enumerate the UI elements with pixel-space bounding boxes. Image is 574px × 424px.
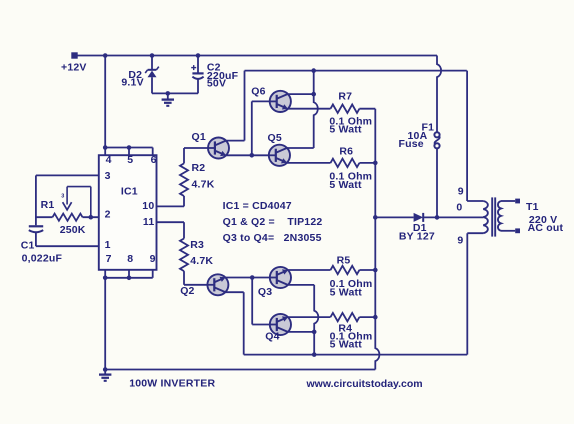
svg-text:IC1 = CD4047: IC1 = CD4047 <box>223 200 292 212</box>
zener diode D2 <box>145 56 159 94</box>
svg-text:Q6: Q6 <box>251 85 265 97</box>
wire Q2 collector riser to bottom collector net <box>226 292 244 354</box>
wire transformer top lead <box>467 71 483 201</box>
junction bus / D1 line <box>373 215 378 220</box>
junction Q6 collector / riser <box>311 92 316 97</box>
svg-text:IC1: IC1 <box>121 186 138 198</box>
wire Q1 emitter to Q5 base <box>226 154 269 156</box>
svg-text:Q5: Q5 <box>268 132 282 144</box>
wire +12V feed down to fuse (hops over collector line) <box>437 56 441 133</box>
resistor R3 (4.7K, vertical) <box>180 239 188 285</box>
capacitor C1 <box>29 226 43 246</box>
junction bus / R5 <box>373 268 378 273</box>
svg-text:0,022uF: 0,022uF <box>22 253 63 265</box>
label F1 10A Fuse <box>399 122 435 150</box>
IC1 CD4047 box <box>99 155 157 270</box>
transformer T1 core <box>492 197 495 236</box>
svg-text:Q1 & Q2 = TIP122: Q1 & Q2 = TIP122 <box>223 216 323 228</box>
wire top collector net (to transformer top) <box>245 70 467 72</box>
svg-text:10: 10 <box>142 200 154 212</box>
wire emitter-resistor bus (hops over bottom collector net) <box>375 109 379 370</box>
svg-text:100W INVERTER: 100W INVERTER <box>129 377 215 389</box>
label D2 9.1V <box>121 69 143 88</box>
junction ground rail / IC riser / ground symbol <box>103 367 108 372</box>
wire secondary top lead <box>501 200 515 202</box>
transistor Q5 (2N3055) <box>269 145 290 166</box>
svg-text:50V: 50V <box>207 78 226 90</box>
ground (bottom) <box>99 370 111 381</box>
wire Q2 emitter to Q3 base <box>225 277 269 279</box>
fuse F1 symbol <box>434 132 439 148</box>
svg-text:9.1V: 9.1V <box>121 77 143 89</box>
junction top collector net / Q5-Q6 riser <box>311 68 316 73</box>
junction on +12V rail at C2 <box>196 53 201 58</box>
wire +12V rail <box>75 55 438 57</box>
junction Q4 collector / riser <box>312 330 317 335</box>
node AC out bottom terminal (square) <box>515 228 520 233</box>
node AC out top terminal (square) <box>515 199 520 204</box>
svg-text:Q3: Q3 <box>258 286 272 298</box>
R1 wiper arrow and link to pin2 <box>61 187 91 218</box>
wire pin10 to R2 bottom <box>157 196 185 206</box>
svg-text:R3: R3 <box>190 239 204 251</box>
svg-text:9: 9 <box>150 253 156 265</box>
transformer T1 primary winding <box>483 201 488 233</box>
resistor R7 (0.1 Ohm) line from Q6 emitter <box>288 105 375 113</box>
junction R1 wiper / pin2 wire <box>89 215 94 220</box>
junction on +12V rail at D2 <box>150 53 155 58</box>
junction at ground stub <box>166 91 171 96</box>
svg-text:Fuse: Fuse <box>399 138 424 150</box>
svg-text:R6: R6 <box>339 146 353 158</box>
svg-text:5 Watt: 5 Watt <box>329 179 362 191</box>
svg-text:11: 11 <box>143 216 155 228</box>
wire riser to Q6 base <box>252 101 270 155</box>
svg-text:3: 3 <box>61 194 64 200</box>
svg-text:R2: R2 <box>192 162 206 174</box>
resistor R4 (0.1 Ohm) line from Q4 emitter <box>288 313 375 321</box>
transistor Q6 (2N3055) <box>270 91 291 112</box>
resistor R6 (0.1 Ohm) line from Q5 emitter <box>287 159 375 167</box>
wire D2/C2 bottom link to ground <box>152 92 198 94</box>
label C2 220uF 50V <box>207 62 239 90</box>
diode D1 (BY127) on center-tap line <box>375 213 483 222</box>
wire pin3 to C1 top / R1 left node <box>36 175 99 225</box>
svg-text:Q4: Q4 <box>265 331 279 343</box>
svg-text:Q1: Q1 <box>192 131 206 143</box>
svg-text:Q2: Q2 <box>180 285 194 297</box>
svg-text:BY 127: BY 127 <box>399 231 435 243</box>
wire +12V riser to IC pins 4,5,6 <box>105 56 153 156</box>
svg-text:7: 7 <box>106 253 112 265</box>
svg-text:C1: C1 <box>21 239 35 251</box>
svg-text:0: 0 <box>456 202 462 214</box>
svg-text:9: 9 <box>458 186 464 198</box>
svg-text:Q3 to Q4= 2N3055: Q3 to Q4= 2N3055 <box>223 232 322 244</box>
svg-text:R7: R7 <box>338 91 352 103</box>
transistor Q2 (TIP122, flipped) <box>207 274 228 295</box>
ground (top, below D2/C2) <box>162 93 174 105</box>
svg-text:6: 6 <box>151 154 157 166</box>
wire C1 bottom to pin1 <box>36 245 99 247</box>
wire transformer bottom lead <box>467 233 483 354</box>
junction at pin8 tie <box>127 276 132 281</box>
junction bus / R6 <box>373 161 378 166</box>
wire Q4 collector to riser <box>289 331 315 333</box>
node +12V terminal (filled square) <box>71 52 77 58</box>
svg-text:5: 5 <box>127 154 133 166</box>
wire R3 bottom to Q2 base <box>184 284 207 286</box>
svg-text:5 Watt: 5 Watt <box>330 339 363 351</box>
junction riser / bottom collector net <box>312 352 317 357</box>
svg-text:T1: T1 <box>526 201 539 213</box>
junction Q4 base riser on Q2 emitter line <box>250 275 255 280</box>
svg-text:5 Watt: 5 Watt <box>329 124 362 136</box>
wire secondary bottom lead <box>501 230 515 232</box>
transistor Q3 (2N3055, flipped) <box>270 267 291 288</box>
wire Q1 collector riser to top collector net <box>227 71 245 141</box>
svg-text:AC out: AC out <box>528 222 564 234</box>
junction on +12V rail at IC riser <box>103 53 108 58</box>
wire ground rail <box>105 369 376 371</box>
wire fuse to center-tap line <box>436 148 438 217</box>
svg-text:3: 3 <box>105 170 111 182</box>
junction at pin5 tie <box>127 145 132 150</box>
svg-text:250K: 250K <box>60 224 86 236</box>
svg-text:+12V: +12V <box>61 62 87 74</box>
wire Q6 collector to riser <box>289 93 314 95</box>
svg-text:R1: R1 <box>41 199 55 211</box>
svg-text:4.7K: 4.7K <box>192 178 215 190</box>
wire R2 top to Q1 base <box>184 147 208 149</box>
resistor R2 (4.7K, vertical) <box>180 148 188 196</box>
svg-text:www.circuitstoday.com: www.circuitstoday.com <box>306 378 423 390</box>
capacitor C2 (polarized) <box>191 56 203 94</box>
transistor Q4 (2N3055, flipped) <box>270 314 291 335</box>
wire Q5 collector riser (hops over R7 line) <box>287 147 314 149</box>
junction at pin7 tie <box>103 276 108 281</box>
label C1 0,022uF <box>21 239 63 264</box>
junction at pin4 tie <box>103 145 108 150</box>
svg-text:R5: R5 <box>337 254 351 266</box>
svg-text:4.7K: 4.7K <box>190 255 213 267</box>
svg-text:9: 9 <box>457 235 463 247</box>
junction bus / R4 <box>373 315 378 320</box>
resistor R5 (0.1 Ohm) line from Q3 emitter <box>288 266 375 274</box>
wire riser to Q4 base <box>252 278 270 325</box>
junction D1 line / fuse feed <box>435 215 440 220</box>
wire IC pins 7,8,9 tie to ground rail <box>105 270 153 370</box>
wire Q3 collector riser (hops over R4 line) <box>289 284 315 286</box>
wire bottom collector net (to transformer bottom) <box>244 354 468 356</box>
svg-text:1: 1 <box>105 239 111 251</box>
svg-text:4: 4 <box>106 154 112 166</box>
transistor Q1 (TIP122) <box>208 138 229 159</box>
junction Q6 base riser on Q1 emitter line <box>250 153 255 158</box>
svg-text:2: 2 <box>105 209 111 221</box>
potentiometer R1 (zigzag) <box>36 214 99 221</box>
svg-text:8: 8 <box>127 253 133 265</box>
svg-text:5 Watt: 5 Watt <box>330 286 363 298</box>
wire pin11 to R3 top <box>157 222 185 238</box>
transformer T1 secondary winding <box>498 201 501 231</box>
